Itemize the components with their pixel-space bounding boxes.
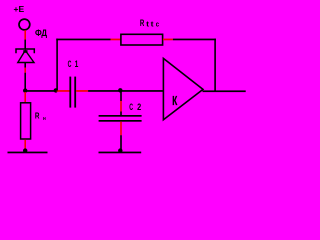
photodiode anode triangle xyxy=(18,50,34,62)
feedback top wire (black) xyxy=(56,39,110,41)
C2 tap junction dot xyxy=(118,88,122,92)
svg-text:R: R xyxy=(140,18,145,28)
feedback vertical wire (right) xyxy=(214,39,216,92)
wire (red) to C1 left plate xyxy=(57,90,70,92)
wire (red) circle to photodiode cathode xyxy=(24,30,26,40)
svg-text:1: 1 xyxy=(75,59,79,70)
wire (red) resistor right xyxy=(163,39,173,41)
C2 vertical wire upper (black) xyxy=(120,92,122,102)
svg-text:R: R xyxy=(35,111,40,121)
node A junction dot xyxy=(23,88,27,92)
resistor Rос body xyxy=(121,34,163,45)
resistor Rн body xyxy=(21,103,31,139)
svg-text:ФД: ФД xyxy=(35,28,47,39)
wire C1 to amplifier input (black) xyxy=(88,90,164,92)
svg-text:C: C xyxy=(129,102,133,113)
ground rail right xyxy=(99,152,142,154)
svg-text:н: н xyxy=(43,116,46,122)
svg-text:C: C xyxy=(68,59,72,70)
wire (red) node A to resistor Rн xyxy=(24,92,26,103)
wire to input node (black) xyxy=(24,73,26,91)
op-amp K triangle xyxy=(163,58,203,119)
feedback vertical wire (left) xyxy=(56,39,58,91)
C2 ground junction dot xyxy=(118,148,122,152)
svg-text:+E: +E xyxy=(14,4,25,14)
capacitor C2 bottom plate xyxy=(99,120,142,122)
terminal circle (+E input) xyxy=(19,19,30,30)
capacitor C2 top plate xyxy=(99,115,142,117)
ground rail left xyxy=(8,152,48,154)
photodiode apex blob xyxy=(23,50,27,53)
capacitor C1 right plate xyxy=(74,77,76,108)
wire (red) C1 to amplifier run xyxy=(76,90,88,92)
svg-text:2: 2 xyxy=(137,102,141,113)
photodiode VD cathode bar xyxy=(16,49,34,53)
C2 wire to top plate (black) xyxy=(120,112,122,116)
output wire xyxy=(203,90,246,92)
feedback wire (red) into resistor xyxy=(111,39,122,41)
wire diode to node (black) xyxy=(24,62,26,67)
svg-text:К: К xyxy=(172,94,177,108)
wire circle-diode lower part xyxy=(24,40,26,50)
C2 wire segment (red) xyxy=(120,101,122,112)
Rн ground junction dot xyxy=(23,148,27,152)
wire (red) resistor Rн to ground xyxy=(24,140,26,149)
main wire node A to feedback node xyxy=(24,90,56,92)
C2 lower wire (red) xyxy=(120,122,122,136)
svg-text:c: c xyxy=(156,19,159,28)
feedback tap junction dot xyxy=(54,88,58,92)
capacitor C1 left plate xyxy=(69,77,71,108)
C2 wire to ground (black) xyxy=(120,135,122,151)
wire segment (red) xyxy=(24,68,26,73)
feedback wire to right corner (black) xyxy=(173,39,216,41)
